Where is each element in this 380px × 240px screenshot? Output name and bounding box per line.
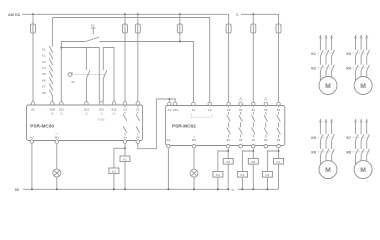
- svg-text:23: 23: [136, 108, 140, 112]
- terminal A1 MC62: [168, 102, 172, 112]
- wire phase L1: [319, 35, 321, 50]
- terminal S12: [84, 102, 90, 116]
- emergency stop head S1: [68, 72, 73, 76]
- wire channel 2 top: [103, 48, 114, 103]
- wire lamp H2 to 0V: [193, 177, 195, 189]
- svg-text:24: 24: [227, 138, 231, 142]
- node junction at 24 branch: [227, 150, 229, 152]
- wire phase L3: [331, 119, 333, 134]
- contact S1 pole 2: [103, 70, 107, 78]
- wire E-stop channel 2 loop: [102, 78, 104, 102]
- svg-text:K2: K2: [311, 67, 315, 71]
- node junctions on 0V bus: [31, 188, 269, 190]
- wire 0V bus: [23, 188, 229, 190]
- wire phase L1: [319, 119, 321, 134]
- lamp H1: [53, 169, 61, 177]
- wire 24 MC62 down: [227, 149, 229, 159]
- node junction on bus at F4 drop: [179, 13, 181, 15]
- svg-text:K4: K4: [216, 173, 220, 177]
- wire branch to coil K4: [218, 151, 228, 172]
- svg-text:23: 23: [227, 108, 231, 112]
- svg-text:K1: K1: [123, 157, 127, 161]
- wire K2 to 0V: [113, 174, 115, 190]
- svg-text:K8: K8: [347, 151, 351, 155]
- svg-text:S34: S34: [50, 108, 56, 112]
- svg-text:43: 43: [252, 108, 256, 112]
- coil K3: [223, 159, 233, 165]
- wire 24V DC bus: [22, 14, 229, 24]
- svg-text:K8: K8: [266, 173, 270, 177]
- coil K8: [262, 172, 272, 178]
- terminal 24 MC62: [226, 138, 230, 148]
- svg-text:0V: 0V: [231, 188, 235, 192]
- contact K2 main: [318, 65, 335, 71]
- terminal S34: [50, 102, 56, 116]
- contact K4 aux: [49, 65, 52, 71]
- node junction at A1 branch: [169, 98, 171, 100]
- terminal A1 MC30: [31, 102, 35, 112]
- svg-text:K4: K4: [42, 66, 46, 70]
- wire K7 to 0V end: [278, 164, 280, 189]
- wire K8 to 0V: [266, 177, 268, 189]
- svg-text:53: 53: [264, 108, 268, 112]
- wire phase L2: [360, 119, 362, 134]
- wire A2 MC62 to 0V: [167, 149, 169, 190]
- svg-text:M: M: [325, 167, 331, 174]
- contact K3 main: [353, 50, 370, 56]
- terminal 63 MC62: [277, 102, 281, 112]
- svg-text:13: 13: [123, 108, 127, 112]
- svg-text:K7: K7: [277, 160, 281, 164]
- terminal S22: [111, 102, 117, 116]
- svg-text:M: M: [325, 83, 331, 90]
- lamp H2: [190, 169, 198, 177]
- node junction at 44 branch: [252, 150, 254, 152]
- motor M1: [319, 77, 337, 95]
- terminal 23 MC62: [227, 102, 231, 112]
- svg-text:K3: K3: [226, 160, 230, 164]
- contact K1 main: [318, 50, 335, 56]
- terminal 24 MC30: [136, 135, 140, 143]
- wire phase L2: [325, 35, 327, 50]
- terminal 43 MC62: [252, 102, 256, 112]
- svg-text:K1: K1: [311, 52, 315, 56]
- svg-text:S2: S2: [91, 23, 95, 27]
- wire 14 down: [124, 144, 126, 156]
- svg-text:24: 24: [136, 135, 140, 139]
- wire K5 to 0V: [252, 164, 254, 189]
- coil K1: [120, 156, 130, 162]
- contact K8 main: [353, 149, 370, 155]
- svg-text:K5: K5: [251, 160, 255, 164]
- feedback contact 11-12 dashed: [191, 114, 212, 117]
- motor branch group 4 K7 K8: [347, 119, 373, 179]
- wire F6 to terminal 43: [252, 33, 254, 102]
- wire S2 output to terminal 11: [100, 42, 194, 103]
- contact K7 aux: [49, 84, 52, 90]
- svg-text:64: 64: [277, 138, 281, 142]
- wire E-stop channel 1: [61, 48, 99, 103]
- svg-text:14: 14: [123, 135, 127, 139]
- coil K7: [274, 159, 284, 165]
- svg-text:K5: K5: [42, 72, 46, 76]
- motor M2: [354, 77, 372, 95]
- wire 64 MC62 down: [278, 149, 280, 159]
- fuse F6: [251, 14, 256, 34]
- svg-text:A2: A2: [30, 135, 34, 139]
- switch S2 blade: [85, 37, 99, 41]
- svg-text:(7): (7): [100, 113, 103, 116]
- wire F3 to terminal 23: [137, 33, 139, 102]
- svg-text:A1: A1: [31, 108, 35, 112]
- wire phase L2: [325, 119, 327, 134]
- wire K4 to 0V: [217, 177, 219, 189]
- node junction on bus at A1 drop: [32, 13, 34, 15]
- svg-text:S12: S12: [84, 108, 90, 112]
- svg-text:12: 12: [208, 108, 212, 112]
- svg-text:K2: K2: [42, 54, 46, 58]
- svg-text:44: 44: [252, 138, 256, 142]
- wire F4 to S2 line junction: [179, 33, 181, 42]
- terminal 14: [123, 135, 127, 143]
- svg-text:34: 34: [239, 138, 243, 142]
- op block PSR-MC30: [27, 105, 143, 141]
- svg-text:PSR-MC62: PSR-MC62: [172, 123, 196, 128]
- phase feed arrowheads: [319, 35, 368, 122]
- svg-text:M: M: [360, 167, 366, 174]
- wire F1 to A1 of PSR-MC30: [32, 33, 34, 102]
- op block PSR-MC62: [166, 106, 285, 146]
- svg-text:M1: M1: [192, 138, 197, 142]
- wire 44 MC62 down: [252, 149, 254, 159]
- terminal 24V MC62: [173, 102, 179, 112]
- svg-text:K3: K3: [347, 52, 351, 56]
- motor branch group 2 K3 K4: [347, 35, 373, 95]
- wire branch to coil K6: [242, 151, 253, 172]
- fuse F7: [276, 23, 281, 34]
- safety contact 43-44: [252, 106, 256, 146]
- terminal 11 MC62: [192, 102, 196, 112]
- svg-text:A2: A2: [167, 138, 171, 142]
- wire 0V bus right: [238, 188, 279, 190]
- svg-text:33: 33: [239, 108, 243, 112]
- wire M1 MC30 to lamp: [56, 144, 58, 169]
- contact K7 main: [353, 134, 370, 140]
- wire M1 MC62 to lamp: [193, 149, 195, 170]
- terminal 54: [264, 138, 268, 148]
- svg-text:S11: S11: [59, 108, 65, 112]
- contact K6 main: [318, 149, 335, 155]
- linkage dashed S1: [72, 74, 106, 76]
- motor M3: [319, 161, 337, 179]
- motor M4: [354, 161, 372, 179]
- wire L bus: [241, 14, 279, 24]
- node junction on bus at F2 drop: [124, 13, 126, 15]
- contact K5 main: [318, 134, 335, 140]
- svg-text:63: 63: [277, 108, 281, 112]
- wire phase L3: [366, 35, 368, 50]
- contact K4 main: [353, 65, 370, 71]
- contact S1 pole 1: [86, 70, 90, 78]
- svg-text:K2: K2: [112, 169, 116, 173]
- node junction S2 line and F4: [179, 41, 181, 43]
- contact chain K1..K8 wire segments: [51, 18, 53, 103]
- wire phase L3: [366, 119, 368, 134]
- contact K3 aux: [49, 59, 52, 65]
- terminal 23 MC30: [136, 102, 140, 112]
- svg-text:S22: S22: [111, 108, 117, 112]
- svg-text:K7: K7: [347, 136, 351, 140]
- fuse F1: [31, 14, 36, 34]
- safety contact 13-14: [123, 105, 127, 141]
- svg-text:(4): (4): [51, 113, 54, 116]
- wire F5 to terminal 23 of PSR-MC62: [228, 33, 230, 102]
- safety contact 63-64: [277, 106, 281, 146]
- coil K5: [248, 159, 258, 165]
- wire lamp H1 to 0V: [56, 177, 58, 189]
- switch S2 actuator: [91, 28, 96, 34]
- contact K5 aux: [49, 71, 52, 77]
- terminal 53 MC62: [264, 102, 268, 112]
- wire phase L3: [331, 35, 333, 50]
- svg-text:(8): (8): [113, 113, 116, 116]
- svg-text:(-): (-): [56, 132, 59, 135]
- svg-text:S21: S21: [99, 108, 105, 112]
- svg-text:PSR-MC30: PSR-MC30: [30, 123, 54, 128]
- terminal 12 MC62: [208, 102, 212, 112]
- wire feedback loop from terminal 12 to contact chain: [52, 18, 209, 103]
- contact K2 aux: [49, 52, 52, 58]
- wire K6 to 0V: [241, 177, 243, 189]
- node junction at 14 branch: [124, 147, 126, 149]
- wire phase L1: [355, 35, 357, 50]
- svg-text:K8: K8: [42, 91, 46, 95]
- wire A2 MC30 to 0V: [31, 144, 33, 190]
- terminal 13: [123, 102, 127, 112]
- fuse F3: [135, 14, 140, 34]
- svg-text:K6: K6: [241, 173, 245, 177]
- contact K6 aux: [49, 77, 52, 83]
- wire branch to coil K2: [114, 148, 125, 168]
- node junction on bus at F3 drop: [137, 13, 139, 15]
- wire F2 to terminal 13: [124, 33, 126, 102]
- svg-text:24V DC: 24V DC: [8, 13, 21, 17]
- safety contact 53-54: [264, 106, 268, 146]
- terminal S11: [59, 102, 65, 116]
- svg-text:K7: K7: [42, 85, 46, 89]
- fuse F2: [123, 14, 128, 34]
- svg-text:K1: K1: [42, 47, 46, 51]
- terminal A2 MC30: [30, 135, 34, 143]
- node junction at 64 branch: [278, 150, 280, 152]
- wire branch to A1 MC62: [168, 99, 170, 102]
- safety contact 33-34: [239, 106, 243, 146]
- stub marker above terminal 33: [239, 98, 242, 101]
- wire S12 leg: [85, 48, 87, 103]
- svg-text:K6: K6: [311, 151, 315, 155]
- contact K8 aux: [49, 90, 52, 96]
- svg-text:(-): (-): [193, 136, 196, 139]
- svg-text:0V: 0V: [15, 188, 20, 192]
- wire branch to coil K8: [267, 151, 278, 172]
- terminal M1 MC62: [192, 136, 197, 148]
- wire phase L2: [360, 35, 362, 50]
- safety contact 23-24 MC62: [227, 106, 231, 146]
- motor branch group 3 K5 K6: [311, 119, 337, 179]
- svg-text:K4: K4: [347, 67, 351, 71]
- terminal 44: [252, 138, 256, 148]
- fuse F5: [226, 23, 231, 34]
- svg-text:(GND): (GND): [98, 119, 105, 122]
- stub marker above terminal 53: [264, 98, 267, 101]
- wire phase L1: [355, 119, 357, 134]
- svg-text:M1: M1: [55, 135, 60, 139]
- terminal 64: [277, 138, 281, 148]
- wire F7 to terminal 63: [278, 33, 280, 102]
- svg-text:(2): (2): [85, 113, 88, 116]
- safety contact 23-24: [136, 105, 140, 141]
- svg-text:S1: S1: [71, 80, 75, 84]
- svg-text:(1): (1): [60, 113, 63, 116]
- wire S11 riser: [61, 42, 85, 103]
- terminal 33 MC62: [239, 102, 243, 112]
- terminal 34: [239, 138, 243, 148]
- fuse F4: [177, 14, 182, 34]
- terminal A2 MC62: [167, 138, 171, 148]
- wire K3 to 0V: [227, 164, 229, 189]
- svg-text:K5: K5: [311, 136, 315, 140]
- svg-text:K3: K3: [42, 60, 46, 64]
- wire K1 to 0V: [124, 162, 126, 190]
- terminal M1 MC30: [55, 132, 60, 143]
- coil K4: [213, 172, 223, 178]
- svg-text:K6: K6: [42, 79, 46, 83]
- svg-text:L: L: [237, 12, 240, 16]
- coil K6: [237, 172, 247, 178]
- node junction on L bus: [252, 13, 254, 15]
- svg-text:M: M: [360, 83, 366, 90]
- svg-text:54: 54: [264, 138, 268, 142]
- wire 24 MC30 to A1/24V MC62: [138, 99, 175, 149]
- motor branch group 1 K1 K2: [311, 35, 337, 95]
- svg-text:11: 11: [192, 108, 195, 112]
- node junction S11 riser: [60, 47, 62, 49]
- svg-text:A1: A1: [168, 108, 172, 112]
- contact K1 aux: [49, 46, 52, 52]
- coil K2: [109, 168, 119, 174]
- terminal S21: [99, 102, 105, 116]
